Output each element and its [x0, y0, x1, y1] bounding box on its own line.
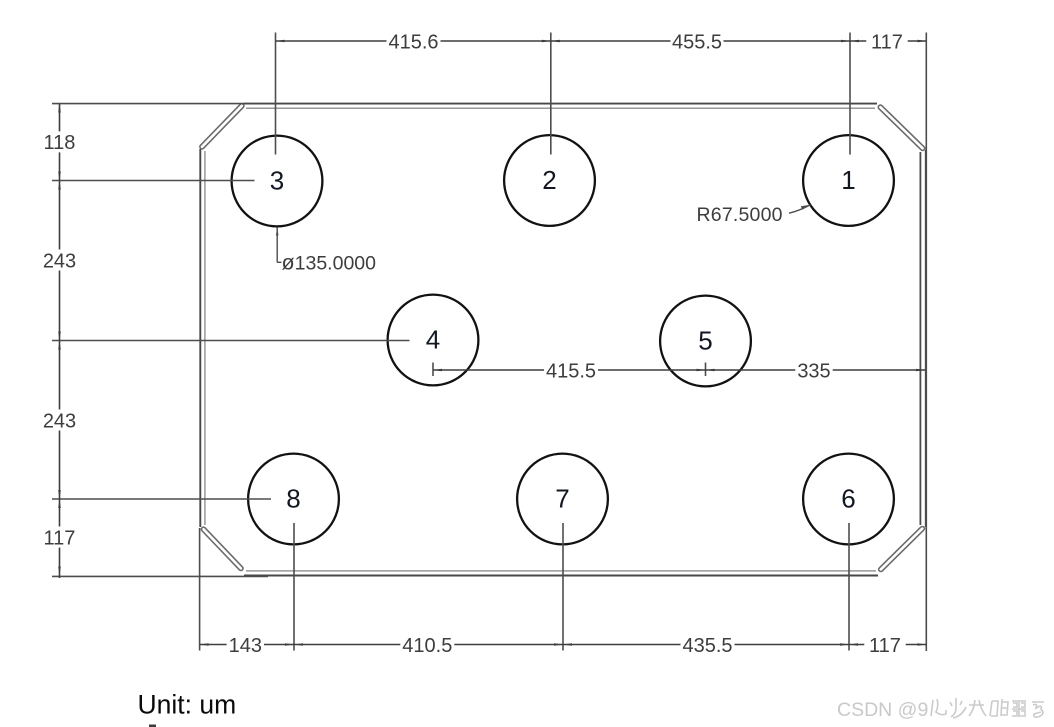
svg-text:117: 117 [871, 31, 903, 53]
svg-text:ø135.0000: ø135.0000 [282, 250, 377, 274]
svg-text:6: 6 [841, 483, 855, 513]
hole number 6 label [841, 483, 855, 513]
svg-text:4: 4 [426, 324, 440, 354]
bottom dimension text 117 [869, 635, 901, 657]
watermark CSDN @9 (latin part) [837, 699, 928, 721]
svg-text:3: 3 [270, 165, 284, 195]
bottom dimension text 143 [229, 635, 262, 657]
svg-text:243: 243 [43, 250, 76, 272]
svg-text:CSDN @9: CSDN @9 [837, 699, 928, 721]
bottom dimension text 435.5 [682, 635, 732, 657]
hole circle 5 [660, 296, 751, 387]
left dimension line x=59.5 [59, 104, 61, 579]
svg-text:2: 2 [542, 165, 556, 195]
top dimension text 117 [871, 31, 903, 53]
extension lines for top dimension row [276, 33, 927, 652]
diameter label Ø135.0000 [282, 250, 377, 274]
extension line stubs for bottom dimension row [200, 523, 849, 651]
hole circle 8 [248, 454, 339, 545]
hole number 3 label [270, 165, 284, 195]
left dimension text 118 [44, 132, 76, 154]
hole circle 4 [388, 295, 479, 386]
top dimension text 455.5 [672, 31, 722, 53]
top-left chamfer capsule [202, 106, 242, 147]
radius label R67.5000 [697, 204, 783, 226]
svg-text:410.5: 410.5 [402, 635, 452, 657]
hole number 2 label [542, 165, 556, 195]
svg-text:243: 243 [43, 410, 76, 432]
svg-text:Unit: um: Unit: um [138, 690, 237, 720]
middle dimension stub at circle 4 center [432, 363, 434, 377]
hole circle 2 [504, 135, 595, 226]
middle dimension text 335 [797, 360, 830, 382]
diameter leader arrowhead [276, 227, 279, 236]
plate inner outline (wall thickness line) [205, 108, 876, 571]
middle dimension line y=370 [433, 369, 925, 371]
bottom-right chamfer capsule [881, 529, 923, 570]
svg-text:5: 5 [698, 325, 712, 355]
svg-text:R67.5000: R67.5000 [697, 204, 783, 226]
svg-text:117: 117 [44, 527, 76, 549]
svg-text:455.5: 455.5 [672, 31, 722, 53]
diameter leader line from circle 3 [277, 228, 281, 263]
svg-text:415.6: 415.6 [388, 31, 438, 53]
svg-text:1: 1 [841, 165, 855, 195]
middle dimension stub at circle 5 center [705, 363, 707, 377]
svg-text:118: 118 [44, 132, 76, 154]
svg-text:335: 335 [797, 360, 830, 382]
left dimension text 243 (upper) [43, 250, 76, 272]
bottom-left chamfer capsule [204, 529, 241, 568]
extension lines for left dimension column [52, 104, 410, 577]
svg-text:8: 8 [286, 483, 300, 513]
middle dimension text 415.5 [546, 360, 596, 382]
top dimension text 415.6 [388, 31, 438, 53]
radius leader line to circle 1 [789, 205, 810, 213]
hole circle 3 [232, 136, 323, 227]
hole number 8 label [286, 483, 300, 513]
svg-text:435.5: 435.5 [682, 635, 732, 657]
hole number 4 label [426, 324, 440, 354]
svg-text:143: 143 [229, 635, 262, 657]
top dimension line y=41 [276, 40, 927, 42]
left dimension text 117 [44, 527, 76, 549]
small crop artifact mark [149, 725, 156, 727]
hole number 5 label [698, 325, 712, 355]
top-right chamfer capsule [880, 107, 922, 148]
left dimension text 243 (lower) [43, 410, 76, 432]
plate outer outline (chamfered rectangle) [200, 104, 926, 576]
hole number 7 label [555, 483, 569, 513]
svg-text:117: 117 [869, 635, 901, 657]
bottom dimension text 410.5 [402, 635, 452, 657]
dimension arrowheads [58, 40, 926, 646]
bottom dimension line y=644.5 [200, 644, 927, 646]
svg-text:7: 7 [555, 483, 569, 513]
hole circle 6 [803, 454, 894, 545]
hole circle 1 [803, 135, 894, 226]
hole circle 7 [517, 454, 608, 545]
unit note text [138, 690, 237, 720]
svg-text:415.5: 415.5 [546, 360, 596, 382]
watermark CJK glyphs (approximated strokes) [931, 698, 1044, 718]
hole number 1 label [841, 165, 855, 195]
plate inner outline right edge (dark) [919, 152, 921, 525]
